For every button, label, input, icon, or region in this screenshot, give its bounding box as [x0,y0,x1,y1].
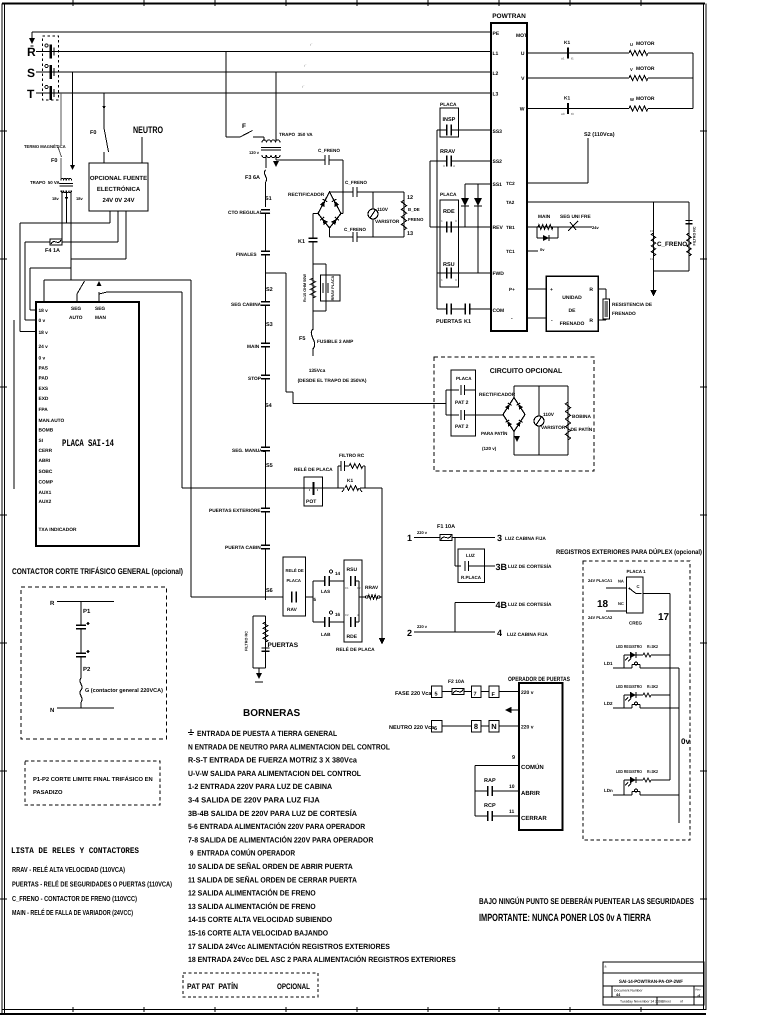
svg-text:F5: F5 [299,336,305,342]
svg-text:MOTOR: MOTOR [636,41,655,47]
svg-text:PLACA 1: PLACA 1 [627,569,647,574]
svg-text:12 SALIDA ALIMENTACIÓN DE FREN: 12 SALIDA ALIMENTACIÓN DE FRENO [188,889,316,898]
svg-text:CONTACTOR CORTE TRIFÁSICO GENE: CONTACTOR CORTE TRIFÁSICO GENERAL (opcio… [12,566,183,576]
svg-text:t1: t1 [571,57,574,61]
svg-text:SEG: SEG [71,306,81,312]
svg-text:NEUTRO 220 Vca: NEUTRO 220 Vca [389,725,435,731]
svg-text:LUZ: LUZ [466,553,475,558]
svg-text:SS1: SS1 [493,182,503,188]
svg-text:PASADIZO: PASADIZO [33,789,63,796]
svg-text:TRAPO 50 VA: TRAPO 50 VA [30,180,61,185]
svg-text:RDE: RDE [347,634,358,640]
svg-text:220 v: 220 v [417,530,428,535]
svg-text:6: 6 [434,726,437,732]
svg-text:LUZ DE CORTESÍA: LUZ DE CORTESÍA [508,563,552,570]
svg-text:RRAV PLACA: RRAV PLACA [331,275,335,300]
svg-text:PLACA: PLACA [440,192,457,198]
svg-text:P1: P1 [83,608,91,615]
svg-text:24 v: 24 v [39,344,49,350]
svg-text:L2: L2 [493,71,499,77]
svg-text:K1: K1 [347,478,353,484]
svg-text:R: R [589,287,593,293]
svg-text:Rev: Rev [696,988,702,992]
svg-text:FASE 220 Vca: FASE 220 Vca [395,691,432,697]
svg-text:P1-P2 CORTE LIMITE FINAL TRIFÁ: P1-P2 CORTE LIMITE FINAL TRIFÁSICO EN [33,775,153,783]
svg-text:4: 4 [497,628,502,638]
svg-text:N: N [50,707,54,714]
svg-text:PE: PE [493,31,500,37]
svg-text:K1: K1 [564,40,570,46]
svg-text:SI: SI [39,438,44,444]
svg-text:VARISTOR: VARISTOR [541,425,566,431]
svg-text:Tuesday November 14 2006: Tuesday November 14 2006 [620,1000,663,1004]
svg-text:13 SALIDA ALIMENTACIÓN DE FREN: 13 SALIDA ALIMENTACIÓN DE FRENO [188,902,316,911]
svg-text:RRAV - RELÉ ALTA VELOCIDAD (11: RRAV - RELÉ ALTA VELOCIDAD (110VCA) [12,865,125,874]
svg-text:120 v: 120 v [249,150,260,155]
svg-text:a: a [605,965,607,969]
svg-text:PUERTA CABINA: PUERTA CABINA [225,545,265,551]
svg-text:220 v: 220 v [521,690,534,696]
svg-text:L1: L1 [493,51,499,57]
svg-text:C_FRENO: C_FRENO [345,180,367,185]
svg-text:PLACA SAI-14: PLACA SAI-14 [62,439,114,450]
svg-text:POT: POT [306,499,316,505]
svg-text:SEG UNI FRE: SEG UNI FRE [560,214,591,220]
svg-text:10: 10 [509,784,515,790]
svg-text:PLACA: PLACA [456,376,472,381]
svg-text:5: 5 [435,692,438,698]
svg-text:TERMO MAGNÉTICA: TERMO MAGNÉTICA [24,144,66,149]
svg-text:CREG: CREG [629,621,643,626]
svg-text:N: N [491,722,496,731]
svg-text:F3 6A: F3 6A [245,175,260,181]
svg-text:EXD: EXD [39,396,49,402]
svg-text:24V PLACA2: 24V PLACA2 [588,615,613,620]
svg-text:PUERTAS EXTERIORES: PUERTAS EXTERIORES [209,508,265,514]
svg-text:FRENO: FRENO [408,217,424,222]
svg-text:PLACA: PLACA [287,578,301,583]
svg-text:COMÚN: COMÚN [521,763,544,771]
svg-text:14-15 CORTE ALTA VELOCIDAD SUB: 14-15 CORTE ALTA VELOCIDAD SUBIENDO [188,915,332,924]
svg-text:U: U [630,42,633,47]
svg-text:REV: REV [493,225,504,231]
svg-text:S6: S6 [266,588,273,594]
svg-text:135Vca: 135Vca [309,368,326,374]
svg-text:C_FRENO: C_FRENO [318,148,340,153]
svg-text:R=3K2: R=3K2 [647,769,659,774]
svg-text:LAB: LAB [321,632,331,637]
svg-text:NA: NA [618,579,624,584]
svg-text:C: C [637,584,640,589]
svg-text:u1: u1 [561,57,565,61]
svg-text:SS2: SS2 [493,159,503,165]
svg-text:BORNERAS: BORNERAS [243,708,301,719]
svg-text:W: W [520,107,525,113]
svg-text:VARISTOR: VARISTOR [375,219,400,225]
svg-text:RELÉ DE PLACA: RELÉ DE PLACA [294,466,333,473]
svg-text:S2: S2 [266,287,273,293]
svg-text:AUX2: AUX2 [39,499,52,505]
svg-text:24v: 24v [592,225,599,230]
svg-text:RSU: RSU [347,567,358,573]
svg-text:RDE: RDE [443,209,455,215]
svg-text:r´: r´ [302,84,305,89]
svg-text:FINALES: FINALES [236,252,257,258]
svg-text:4B: 4B [496,600,508,610]
svg-text:SEG. MANUAL: SEG. MANUAL [232,448,266,454]
svg-text:PUERTAS - RELÉ DE SEGURIDADES: PUERTAS - RELÉ DE SEGURIDADES O PUERTAS … [12,880,172,889]
svg-text:110V: 110V [377,207,389,213]
svg-text:r´: r´ [310,42,313,47]
svg-text:R=3K2: R=3K2 [647,684,659,689]
svg-text:5-6 ENTRADA ALIMENTACIÓN 220V: 5-6 ENTRADA ALIMENTACIÓN 220V PARA OPERA… [188,822,366,831]
svg-text:BOBINA: BOBINA [572,414,591,420]
svg-text:OPERADOR DE PUERTAS: OPERADOR DE PUERTAS [508,676,570,683]
svg-text:R=15 OHM 50W: R=15 OHM 50W [303,274,307,302]
svg-text:DE PATÍN: DE PATÍN [571,426,593,433]
svg-text:MOTOR: MOTOR [636,66,655,72]
svg-text:1-2 ENTRADA 220V PARA LUZ DE C: 1-2 ENTRADA 220V PARA LUZ DE CABINA [188,782,333,791]
svg-text:ELECTRÓNICA: ELECTRÓNICA [97,185,141,193]
svg-text:(DESDE EL TRAPO DE 350VA): (DESDE EL TRAPO DE 350VA) [298,378,367,384]
svg-text:FPA: FPA [39,407,49,413]
svg-text:7: 7 [474,692,477,698]
svg-text:SEG CABINA: SEG CABINA [231,302,262,308]
svg-text:TC2: TC2 [506,181,515,186]
svg-text:LD2: LD2 [604,701,613,706]
svg-text:FILTRO RC: FILTRO RC [245,631,249,651]
svg-text:7-8 SALIDA DE ALIMENTACIÓN 220: 7-8 SALIDA DE ALIMENTACIÓN 220V PARA OPE… [188,835,374,844]
svg-text:1: 1 [407,533,412,543]
svg-text:RELÉ DE PLACA: RELÉ DE PLACA [336,646,375,653]
svg-text:LED REGISTRO: LED REGISTRO [616,769,643,774]
svg-text:12: 12 [407,195,413,201]
svg-text:3: 3 [497,533,502,543]
svg-text:MAN.AUTO: MAN.AUTO [39,418,65,424]
svg-text:FRENADO: FRENADO [612,311,636,317]
svg-text:K1: K1 [564,96,570,102]
svg-text:RELÉ DE: RELÉ DE [286,568,304,573]
svg-text:IMPORTANTE: NUNCA PONER LOS 0v: IMPORTANTE: NUNCA PONER LOS 0v A TIERRA [479,912,651,924]
svg-text:LUZ CABINA FIJA: LUZ CABINA FIJA [507,632,548,638]
svg-text:S3: S3 [266,322,273,328]
svg-text:Document Number: Document Number [614,989,643,993]
svg-text:BAJO NINGÚN PUNTO SE DEBERÁN P: BAJO NINGÚN PUNTO SE DEBERÁN PUENTEAR LA… [479,896,694,906]
svg-text:LISTA DE RELES Y CONTACTORES: LISTA DE RELES Y CONTACTORES [11,846,139,856]
svg-text:FWD: FWD [493,271,505,277]
svg-text:LD1: LD1 [604,661,613,666]
svg-text:24V PLACA1: 24V PLACA1 [588,578,613,583]
svg-text:C1: C1 [345,586,349,590]
svg-text:TXA INDICADOR: TXA INDICADOR [39,527,77,533]
svg-text:24V 0V 24V: 24V 0V 24V [102,197,134,204]
svg-text:R-S-T ENTRADA DE FUERZA MOTRIZ: R-S-T ENTRADA DE FUERZA MOTRIZ 3 X 380Vc… [188,756,358,765]
svg-text:0 v: 0 v [39,356,46,362]
svg-text:E2: E2 [650,257,654,261]
svg-text:TA2: TA2 [506,200,515,205]
svg-text:P2: P2 [83,666,91,673]
svg-text:SOBC: SOBC [39,469,53,475]
svg-text:t3: t3 [571,112,574,116]
svg-text:AUTO: AUTO [69,315,83,321]
svg-text:E1: E1 [650,229,654,233]
svg-text:K1: K1 [298,239,305,245]
svg-text:MAIN - RELÉ DE FALLA DE VARIAD: MAIN - RELÉ DE FALLA DE VARIADOR (24VCC) [12,908,133,917]
svg-text:17 SALIDA 24Vcc ALIMENTACIÓN R: 17 SALIDA 24Vcc ALIMENTACIÓN REGISTROS E… [188,942,390,951]
svg-text:PLACA: PLACA [440,102,457,108]
svg-text:110V: 110V [543,412,555,418]
svg-text:POWTRAN: POWTRAN [492,13,526,20]
svg-text:V: V [630,67,633,72]
svg-text:11 SALIDA DE SEÑAL ORDEN DE CE: 11 SALIDA DE SEÑAL ORDEN DE CERRAR PUERT… [188,875,357,884]
svg-text:PARA PATÍN: PARA PATÍN [481,431,507,436]
svg-text:N ENTRADA DE NEUTRO PARA ALIME: N ENTRADA DE NEUTRO PARA ALIMENTACION DE… [188,742,390,751]
svg-text:18: 18 [597,599,609,610]
svg-text:S4: S4 [265,403,273,409]
svg-text:SAI-14-POWTRAN-PA-OP-2WF: SAI-14-POWTRAN-PA-OP-2WF [619,979,683,985]
svg-text:OPCIONAL: OPCIONAL [277,982,310,991]
svg-text:0v: 0v [540,247,545,252]
svg-text:TC1: TC1 [506,249,515,254]
svg-text:CIRCUITO OPCIONAL: CIRCUITO OPCIONAL [490,368,563,375]
svg-text:ABRI: ABRI [39,458,51,464]
svg-text:S1: S1 [265,196,272,202]
svg-text:F0: F0 [90,130,96,136]
svg-text:R: R [27,45,36,59]
svg-text:RSU: RSU [443,262,455,268]
svg-text:3B-4B SALIDA DE 220V PARA LUZ: 3B-4B SALIDA DE 220V PARA LUZ DE CORTESÍ… [188,809,357,818]
svg-text:ABRIR: ABRIR [521,790,541,797]
svg-text:LDn: LDn [604,788,613,793]
svg-text:NEUTRO: NEUTRO [133,125,163,136]
svg-text:FILTRO RC: FILTRO RC [693,226,697,245]
svg-text:U-V-W SALIDA PARA ALIMENTACION: U-V-W SALIDA PARA ALIMENTACION DEL CONTR… [188,769,361,778]
svg-text:COMP: COMP [39,480,54,486]
svg-text:2: 2 [407,628,412,638]
svg-text:MAIN: MAIN [247,344,260,350]
svg-text:RRAV: RRAV [365,585,379,591]
svg-text:STOP: STOP [248,376,262,382]
svg-text:C_FRENO - CONTACTOR DE FRENO (: C_FRENO - CONTACTOR DE FRENO (110VCC) [12,894,137,903]
svg-text:+: + [550,287,553,293]
svg-text:AUX1: AUX1 [39,490,52,496]
svg-text:9 ENTRADA COMÚN OPERADOR: 9 ENTRADA COMÚN OPERADOR [188,849,296,858]
svg-text:C_FRENO: C_FRENO [344,227,366,232]
svg-text:R.PLACA: R.PLACA [461,575,482,580]
svg-text:RRAV: RRAV [440,149,456,155]
svg-text:18v: 18v [76,196,83,201]
svg-text:9: 9 [512,755,515,761]
svg-text:F2 10A: F2 10A [448,679,465,685]
svg-text:FRENADO: FRENADO [560,321,585,327]
svg-text:S: S [27,66,35,80]
svg-text:0v: 0v [681,737,690,746]
svg-text:r´: r´ [304,63,307,68]
svg-text:14: 14 [335,571,341,576]
svg-text:R: R [50,600,55,607]
svg-text:FUSIBLE 3 AMP: FUSIBLE 3 AMP [317,339,354,345]
svg-text:DE: DE [569,308,577,314]
svg-text:PUERTAS: PUERTAS [436,319,462,325]
svg-text:T: T [27,87,35,101]
svg-text:11: 11 [509,809,515,815]
svg-text:ENTRADA DE PUESTA A TIERRA GEN: ENTRADA DE PUESTA A TIERRA GENERAL [197,729,337,738]
svg-text:MOTOR: MOTOR [636,96,655,102]
svg-text:B_DE: B_DE [408,207,420,212]
svg-text:RECTIFICADOR: RECTIFICADOR [288,192,325,198]
svg-text:15-16 CORTE ALTA VELOCIDAD BAJ: 15-16 CORTE ALTA VELOCIDAD BAJANDO [188,929,328,938]
svg-text:INSP: INSP [443,117,456,123]
svg-text:FILTRO RC: FILTRO RC [339,453,365,459]
svg-text:0 v: 0 v [39,318,46,324]
svg-text:MAN: MAN [95,315,106,321]
svg-text:of: of [680,1000,683,1004]
svg-text:F: F [242,123,246,130]
svg-text:3B: 3B [496,562,508,572]
svg-text:F0: F0 [51,158,57,164]
svg-text:LED REGISTRO: LED REGISTRO [616,684,643,689]
svg-text:REGISTROS EXTERIORES PARA DÚPL: REGISTROS EXTERIORES PARA DÚPLEX (opcion… [556,548,702,556]
svg-text:MOT: MOT [516,33,527,39]
svg-text:8: 8 [474,722,478,731]
svg-text:RECTIFICADOR: RECTIFICADOR [479,392,516,398]
svg-text:u3: u3 [561,112,565,116]
svg-text:RCP: RCP [484,803,496,809]
svg-text:17: 17 [658,612,670,623]
svg-text:W: W [630,97,634,102]
svg-text:16: 16 [335,612,341,617]
svg-text:PAT 2: PAT 2 [455,400,469,406]
svg-text:LUZ CABINA FIJA: LUZ CABINA FIJA [505,536,546,542]
svg-text:220 v: 220 v [417,624,428,629]
svg-text:10 SALIDA DE SEÑAL ORDEN DE AB: 10 SALIDA DE SEÑAL ORDEN DE ABRIR PUERTA [188,862,353,871]
svg-text:TB1: TB1 [506,225,515,230]
svg-text:UNIDAD: UNIDAD [562,295,582,301]
svg-text:RAP: RAP [484,778,496,784]
svg-text:NC: NC [618,601,624,606]
svg-text:S5: S5 [266,463,273,469]
svg-text:18 v: 18 v [39,308,49,314]
svg-text:K1: K1 [464,319,471,325]
svg-text:SS3: SS3 [493,129,503,135]
svg-text:R: R [589,318,593,324]
svg-text:C2: C2 [345,613,349,617]
svg-text:S2 (110Vca): S2 (110Vca) [584,132,615,138]
svg-text:OPCIONAL FUENTE: OPCIONAL FUENTE [90,175,147,182]
svg-text:U: U [521,51,525,57]
svg-text:220 v: 220 v [521,725,534,731]
svg-text:13: 13 [407,231,413,237]
svg-text:18 ENTRADA 24Vcc DEL ASC 2 PAR: 18 ENTRADA 24Vcc DEL ASC 2 PARA ALIMENTA… [188,955,456,964]
svg-text:18 v: 18 v [39,330,49,336]
svg-text:18v: 18v [52,196,59,201]
svg-text:RESISTENCIA DE: RESISTENCIA DE [612,302,653,308]
svg-text:LED REGISTRO: LED REGISTRO [616,644,643,649]
svg-text:CERRAR: CERRAR [521,815,547,822]
svg-text:Sheet: Sheet [662,1000,671,1004]
svg-text:RAV: RAV [287,607,298,613]
svg-text:PAT PAT PATÍN: PAT PAT PATÍN [187,981,238,991]
svg-text:R=3K2: R=3K2 [647,644,659,649]
svg-text:COM: COM [493,308,505,314]
svg-text:3-4 SALIDA DE 220V PARA LUZ FI: 3-4 SALIDA DE 220V PARA LUZ FIJA [188,796,320,805]
svg-text:PUERTAS: PUERTAS [268,642,299,649]
svg-text:L3: L3 [493,92,499,98]
svg-text:F1 10A: F1 10A [437,524,455,530]
svg-text:PAT 2: PAT 2 [455,424,469,430]
svg-text:PAS: PAS [39,366,49,372]
svg-text:MAIN: MAIN [538,214,551,220]
svg-text:C_FRENO: C_FRENO [657,241,687,248]
svg-text:(120 v): (120 v) [482,446,497,451]
svg-text:G (contactor general 220VCA): G (contactor general 220VCA) [85,688,163,694]
svg-text:CERR: CERR [39,448,53,454]
svg-text:BOMB: BOMB [39,428,54,434]
svg-text:EXS: EXS [39,386,49,392]
svg-text:LAS: LAS [321,589,330,594]
svg-text:LUZ DE CORTESÍA: LUZ DE CORTESÍA [508,601,552,608]
svg-text:P+: P+ [509,287,515,292]
svg-text:SEG: SEG [95,306,105,312]
svg-text:TRAPO 350 VA: TRAPO 350 VA [279,132,313,137]
svg-text:PAD: PAD [39,376,49,382]
svg-text:F4 1A: F4 1A [45,248,60,254]
